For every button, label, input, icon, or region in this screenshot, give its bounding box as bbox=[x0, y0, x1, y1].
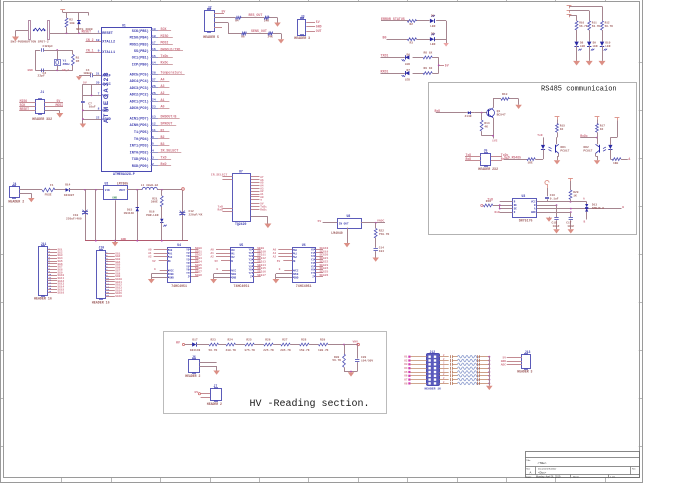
J5 left pin wires bbox=[465, 153, 481, 161]
svg-text:LED: LED bbox=[580, 45, 585, 48]
svg-text:VCC: VCC bbox=[102, 95, 109, 99]
J1 left pin wires with labels bbox=[19, 99, 35, 111]
opto2 coupling arrows bbox=[603, 147, 606, 151]
svg-text:SG16: SG16 bbox=[115, 295, 122, 298]
resistor R2 bbox=[65, 18, 75, 28]
svg-text:MISO(PB4): MISO(PB4) bbox=[130, 36, 149, 41]
svg-text:IR_SELECT: IR_SELECT bbox=[211, 172, 228, 176]
svg-text:B1: B1 bbox=[161, 128, 165, 132]
wire U3 VCC row bbox=[537, 199, 587, 202]
ground (U8) bbox=[344, 243, 351, 247]
connector J6 HEADER 2 bbox=[185, 355, 200, 378]
net label 5V (AVCC) bbox=[83, 81, 87, 85]
svg-text:R3: R3 bbox=[410, 42, 414, 45]
svg-text:15: 15 bbox=[152, 54, 156, 58]
wire C7 to VCC rail bbox=[82, 84, 84, 101]
J1 right pin wires bbox=[44, 99, 63, 113]
svg-text:23: 23 bbox=[152, 104, 156, 108]
svg-text:SCK(PB5): SCK(PB5) bbox=[132, 29, 149, 34]
svg-text:56.7K: 56.7K bbox=[209, 349, 218, 352]
wire crystal bottom bbox=[35, 50, 73, 71]
open pin circle HV out bbox=[353, 339, 360, 345]
svg-text:TxD: TxD bbox=[537, 134, 542, 137]
svg-text:1N4148: 1N4148 bbox=[190, 349, 201, 352]
svg-text:AIN0(PD6): AIN0(PD6) bbox=[130, 123, 149, 128]
svg-text:LED: LED bbox=[605, 45, 610, 48]
svg-text:Sheet: Sheet bbox=[573, 476, 579, 479]
svg-text:J11: J11 bbox=[41, 242, 47, 246]
J3 pin wires with labels bbox=[306, 20, 321, 33]
LED D5 bbox=[430, 33, 436, 46]
svg-text:Monday, April 01, 2019: Monday, April 01, 2019 bbox=[536, 476, 561, 479]
svg-text:4148: 4148 bbox=[465, 115, 472, 118]
svg-text:74HC4051: 74HC4051 bbox=[234, 284, 250, 288]
svg-text:R28: R28 bbox=[301, 339, 306, 342]
resistor R23 56.7K bbox=[209, 339, 219, 352]
wire J2 pin2 row bbox=[214, 18, 277, 23]
wire U8 output bbox=[361, 219, 385, 224]
svg-text:SW1-PUSHBUTTON SPST-2: SW1-PUSHBUTTON SPST-2 bbox=[11, 40, 49, 44]
svg-text:14: 14 bbox=[152, 61, 156, 65]
svg-text:RXD1: RXD1 bbox=[381, 69, 389, 73]
svg-text:GND: GND bbox=[102, 109, 108, 113]
svg-text:R27: R27 bbox=[282, 339, 287, 342]
LED D16 PWR-LED bbox=[146, 207, 166, 241]
wire U3 B row to caps bbox=[537, 204, 558, 217]
svg-text:GND: GND bbox=[316, 24, 322, 28]
wire AREF bbox=[79, 75, 101, 77]
ground (R13) bbox=[515, 105, 522, 109]
svg-text:375.7K: 375.7K bbox=[244, 349, 255, 352]
svg-text:750.7K: 750.7K bbox=[379, 233, 390, 236]
svg-text:RxD: RxD bbox=[495, 211, 500, 214]
svg-text:LED: LED bbox=[430, 43, 435, 46]
svg-text:HEADER 16: HEADER 16 bbox=[92, 300, 110, 304]
ground (led col 3) bbox=[599, 61, 606, 66]
net label TxD (R19 input) bbox=[487, 198, 493, 202]
svg-text:K1: K1 bbox=[404, 356, 408, 359]
LED D4 bbox=[430, 14, 436, 27]
wire base net bbox=[436, 112, 487, 114]
svg-text:K3: K3 bbox=[404, 363, 408, 366]
ribbon common wire to ground bbox=[489, 357, 491, 386]
svg-text:6: 6 bbox=[152, 135, 154, 139]
HV section box bbox=[164, 332, 387, 414]
svg-text:U4: U4 bbox=[177, 243, 181, 247]
capacitor C16 0.1uF bbox=[545, 188, 559, 202]
svg-text:1K: 1K bbox=[600, 128, 604, 131]
net label CN_2 (crystal side) bbox=[62, 69, 69, 72]
wire base resistor branch bbox=[481, 113, 483, 120]
J6 pin wires bbox=[200, 363, 217, 371]
J11 pin wires bbox=[48, 247, 65, 294]
RS485 section box bbox=[429, 83, 637, 235]
ground (row1) bbox=[274, 23, 281, 27]
optocoupler OK2 PC817 transistor side bbox=[583, 144, 599, 153]
svg-text:INT0(PD2): INT0(PD2) bbox=[130, 150, 149, 155]
U7 left pin wires bottom bbox=[218, 204, 233, 211]
wire LED D10 to ground bbox=[602, 46, 604, 61]
svg-text:TxD_RS485: TxD_RS485 bbox=[504, 155, 521, 159]
svg-text:GND: GND bbox=[121, 237, 127, 241]
wire R12 to LED bbox=[602, 30, 604, 42]
opto1 coupling arrows bbox=[549, 147, 552, 151]
svg-text:AGND: AGND bbox=[102, 118, 111, 122]
svg-text:MOSI(PB3): MOSI(PB3) bbox=[130, 42, 149, 47]
svg-text:<Doc>: <Doc> bbox=[538, 470, 547, 474]
wire TXD1 RXD1 join with 5V stub bbox=[438, 57, 449, 73]
svg-text:A2: A2 bbox=[294, 256, 298, 259]
wire to R28 bbox=[290, 344, 299, 346]
power symbol VCC (led col 2) bbox=[567, 10, 572, 13]
diode D14 1N4007 bbox=[64, 183, 75, 197]
net label SENS_OUT row bbox=[251, 29, 267, 33]
svg-text:16: 16 bbox=[152, 47, 156, 51]
diode D17 1N4148 bbox=[190, 339, 201, 353]
svg-text:HEADER 3X2: HEADER 3X2 bbox=[32, 117, 52, 121]
svg-text:DHSOUT/B: DHSOUT/B bbox=[161, 115, 177, 119]
svg-text:K5: K5 bbox=[404, 371, 408, 374]
svg-text:INT1(PD3): INT1(PD3) bbox=[130, 144, 149, 149]
svg-text:CN_1: CN_1 bbox=[86, 48, 94, 52]
svg-text:PC817: PC817 bbox=[583, 148, 592, 152]
svg-text:225.7K: 225.7K bbox=[263, 349, 274, 352]
svg-text:10nF: 10nF bbox=[553, 225, 560, 228]
svg-text:<Title>: <Title> bbox=[538, 461, 547, 465]
svg-text:HEADER 2: HEADER 2 bbox=[207, 402, 222, 406]
svg-text:GND: GND bbox=[232, 277, 237, 280]
ground (AREF) bbox=[76, 76, 82, 80]
svg-text:2: 2 bbox=[152, 162, 154, 166]
capacitor C10 220uF/400 bbox=[66, 190, 88, 241]
svg-text:HV: HV bbox=[195, 390, 199, 394]
svg-text:56.7K: 56.7K bbox=[605, 25, 614, 28]
ground (HV divider) bbox=[348, 372, 355, 376]
svg-text:74HC4051: 74HC4051 bbox=[296, 284, 312, 288]
power symbol VCC (reset pullup) bbox=[60, 10, 65, 13]
capacitor C14 104 bbox=[374, 238, 385, 258]
svg-text:J12: J12 bbox=[430, 350, 436, 354]
svg-text:TXD(PD1): TXD(PD1) bbox=[132, 157, 149, 162]
svg-text:R19: R19 bbox=[486, 200, 491, 203]
ground (U6) bbox=[273, 279, 280, 283]
svg-text:IN OUT: IN OUT bbox=[339, 222, 349, 225]
svg-text:A2: A2 bbox=[161, 91, 165, 95]
svg-text:74HC4051: 74HC4051 bbox=[171, 284, 187, 288]
svg-text:MOSI: MOSI bbox=[56, 103, 64, 107]
svg-text:R4: R4 bbox=[235, 20, 239, 23]
svg-text:A2: A2 bbox=[169, 256, 173, 259]
svg-text:HEADER 3: HEADER 3 bbox=[294, 36, 310, 40]
IC U5 74HC4051 body bbox=[230, 243, 254, 288]
svg-text:AREF: AREF bbox=[102, 74, 111, 78]
svg-text:24K: 24K bbox=[264, 20, 269, 23]
svg-text:B2: B2 bbox=[161, 135, 165, 139]
svg-text:XTALL1: XTALL1 bbox=[102, 51, 115, 55]
wire opto2 emitter to ground bbox=[596, 153, 598, 160]
svg-text:HV: HV bbox=[176, 341, 180, 345]
svg-text:SENS_OUT: SENS_OUT bbox=[251, 29, 267, 33]
IC U4 74HC4051 body bbox=[168, 243, 192, 288]
ribbon left net labels and dots bbox=[404, 356, 410, 386]
J10 pin wires bbox=[106, 251, 123, 298]
U5 left pin wires bbox=[211, 249, 231, 279]
ribbon right wires with resistor network bbox=[439, 354, 490, 385]
U1 right pins with net labels bbox=[130, 27, 185, 169]
svg-text:A: A bbox=[628, 157, 630, 161]
svg-text:R6: R6 bbox=[241, 35, 245, 38]
svg-text:220uF/4X: 220uF/4X bbox=[189, 212, 203, 216]
svg-text:18: 18 bbox=[152, 34, 156, 38]
svg-text:1KE: 1KE bbox=[613, 162, 618, 165]
connector J1 HEADER 3X2 bbox=[32, 90, 52, 121]
svg-text:1M: 1M bbox=[76, 59, 80, 63]
svg-text:U1: U1 bbox=[122, 23, 126, 27]
svg-text:5V: 5V bbox=[277, 260, 281, 263]
svg-text:3: 3 bbox=[152, 155, 154, 159]
svg-text:AVCC: AVCC bbox=[102, 83, 111, 87]
svg-text:205.7K: 205.7K bbox=[280, 349, 291, 352]
wire opto1 emitter to ground bbox=[557, 153, 559, 160]
diode D12 4148 bbox=[465, 111, 475, 118]
svg-text:10uF: 10uF bbox=[89, 105, 96, 108]
svg-text:RES_OUT: RES_OUT bbox=[249, 13, 263, 17]
svg-text:104: 104 bbox=[379, 250, 384, 253]
svg-text:LED: LED bbox=[405, 79, 410, 82]
power ground rail bbox=[85, 240, 188, 242]
net stub CN_1 to XTAL1 bbox=[86, 48, 102, 52]
svg-text:104/50V: 104/50V bbox=[361, 359, 373, 363]
svg-text:ADC3(PC3): ADC3(PC3) bbox=[130, 86, 149, 91]
wire R17 to opto2 collector bbox=[597, 132, 599, 144]
net label B1 (opto1 anode) bbox=[537, 134, 542, 137]
svg-text:SCK: SCK bbox=[161, 27, 167, 31]
net label B (TVS bottom) bbox=[584, 221, 586, 224]
svg-text:MOSI: MOSI bbox=[161, 41, 169, 45]
wire to R25 bbox=[236, 344, 245, 346]
svg-text:22: 22 bbox=[96, 115, 100, 119]
svg-text:DHSOLD/TXD: DHSOLD/TXD bbox=[161, 47, 181, 51]
ground (opto1) bbox=[554, 160, 561, 164]
svg-text:1V2: 1V2 bbox=[492, 138, 498, 142]
svg-text:LED: LED bbox=[430, 25, 435, 28]
ground (U5) bbox=[210, 279, 217, 283]
svg-text:F1: F1 bbox=[50, 184, 54, 187]
svg-text:5: 5 bbox=[152, 142, 154, 146]
ground (opto2) bbox=[594, 160, 601, 164]
svg-text:A4: A4 bbox=[161, 78, 165, 82]
wire R2 D1 to reset wire bbox=[67, 27, 79, 33]
svg-text:9: 9 bbox=[98, 48, 100, 52]
net label GND (crystal) bbox=[28, 69, 33, 72]
resistor R1 1M bbox=[72, 50, 80, 66]
LED D8 bbox=[574, 42, 585, 51]
svg-text:1N4007: 1N4007 bbox=[64, 194, 75, 197]
J5 right pin wires bbox=[491, 153, 509, 161]
crystal Y1 bbox=[55, 59, 70, 66]
resistor R22 750.7K bbox=[374, 223, 389, 238]
capacitor C7 10uF bbox=[81, 101, 96, 108]
ground (C14) bbox=[372, 258, 379, 262]
IC U7 TQ2420 body bbox=[233, 170, 251, 227]
svg-text:OUT: OUT bbox=[316, 29, 322, 33]
wire crystal top bbox=[35, 49, 73, 59]
power symbol VCC (led col 3) bbox=[567, 6, 572, 9]
svg-text:22pF: 22pF bbox=[46, 44, 53, 48]
J13 pin wires bbox=[501, 356, 522, 366]
capacitor C20 104/50V bbox=[355, 345, 373, 372]
wire to R26 bbox=[254, 344, 263, 346]
svg-text:U3: U3 bbox=[522, 194, 526, 198]
junction dot (base) bbox=[481, 112, 483, 114]
svg-text:RxD: RxD bbox=[466, 157, 472, 161]
svg-text:PWR-LED: PWR-LED bbox=[146, 214, 158, 217]
resistor R11 56.7K bbox=[588, 21, 601, 30]
resistor R25 375.7K bbox=[244, 339, 255, 352]
svg-text:5V: 5V bbox=[316, 20, 320, 24]
svg-text:K8: K8 bbox=[404, 382, 408, 385]
svg-text:19: 19 bbox=[152, 27, 156, 31]
svg-text:SS(PB2): SS(PB2) bbox=[134, 49, 149, 54]
svg-text:J1: J1 bbox=[40, 90, 44, 94]
svg-text:XTALL2: XTALL2 bbox=[102, 41, 115, 45]
svg-text:RxD: RxD bbox=[218, 208, 224, 212]
diode D1 1N4007 bbox=[77, 21, 81, 34]
svg-text:BC547: BC547 bbox=[497, 112, 506, 116]
svg-text:RESET: RESET bbox=[20, 107, 30, 111]
resistor R15 1K bbox=[556, 119, 566, 132]
resistor R24 430.7K bbox=[226, 339, 237, 352]
RS485 section title bbox=[541, 86, 617, 94]
svg-text:ADC4(PC4): ADC4(PC4) bbox=[130, 79, 149, 84]
svg-text:R26: R26 bbox=[265, 339, 270, 342]
U3 left pin wires bbox=[495, 202, 513, 214]
svg-text:1N4148: 1N4148 bbox=[124, 212, 135, 215]
net stub CN_2 to XTAL2 bbox=[86, 38, 102, 42]
svg-text:D7: D7 bbox=[407, 69, 411, 72]
svg-text:5V: 5V bbox=[215, 260, 219, 263]
svg-text:220uF/400: 220uF/400 bbox=[66, 217, 82, 221]
wire U3 D row bbox=[537, 211, 572, 217]
svg-text:RxD: RxD bbox=[161, 162, 167, 166]
svg-text:J10: J10 bbox=[99, 246, 105, 250]
ground (pushbutton) bbox=[12, 31, 19, 42]
capacitor C18 10nF bbox=[552, 218, 560, 230]
wire regulator ground bbox=[115, 200, 117, 241]
wire to R23 bbox=[196, 344, 209, 346]
U7 ground pin wire bbox=[251, 217, 268, 224]
svg-text:A: A bbox=[583, 198, 585, 201]
svg-text:CN_2: CN_2 bbox=[86, 38, 94, 42]
svg-text:R9 1K: R9 1K bbox=[424, 67, 433, 70]
svg-text:D6: D6 bbox=[407, 53, 411, 56]
svg-text:TQ2420: TQ2420 bbox=[235, 222, 246, 226]
wire reset net bbox=[16, 31, 102, 34]
resistor R5 (row1 b) bbox=[264, 16, 269, 22]
resistor R21 390E bbox=[151, 190, 163, 207]
svg-text:13: 13 bbox=[152, 115, 156, 119]
U7 right pin wires group1 bbox=[251, 176, 264, 202]
svg-text:IR_SELECT: IR_SELECT bbox=[161, 149, 179, 153]
svg-text:U8: U8 bbox=[347, 214, 351, 218]
power symbol VCC (R20) bbox=[568, 178, 573, 181]
capacitor C4 100nF (AREF) bbox=[83, 68, 92, 77]
wire U8 input bbox=[318, 219, 338, 223]
pushbutton SW1 SPST-2 bbox=[29, 21, 50, 40]
svg-text:HV -Reading section.: HV -Reading section. bbox=[250, 398, 370, 410]
wire emitter to gnd net bbox=[482, 118, 494, 139]
svg-text:C4: C4 bbox=[86, 68, 90, 72]
svg-text:VADC: VADC bbox=[377, 219, 384, 223]
U4 left pin wires bbox=[148, 249, 168, 279]
svg-text:5V: 5V bbox=[152, 260, 156, 263]
svg-text:0.1uF: 0.1uF bbox=[550, 197, 559, 200]
capacitor C12 220uF/4X bbox=[179, 190, 202, 241]
svg-text:Rev: Rev bbox=[632, 468, 636, 470]
svg-text:J7: J7 bbox=[214, 384, 218, 388]
svg-text:28: 28 bbox=[152, 71, 156, 75]
IC U1 ATMEGA328 body bbox=[102, 23, 152, 176]
svg-text:R8 1K: R8 1K bbox=[424, 51, 433, 54]
svg-text:L1 33uH-3A: L1 33uH-3A bbox=[141, 184, 159, 187]
ground (J4) bbox=[28, 198, 35, 202]
resistor R17 1K bbox=[596, 119, 606, 132]
resistor R26 225.7K bbox=[263, 339, 274, 352]
svg-text:1: 1 bbox=[98, 29, 100, 33]
svg-text:A: A bbox=[530, 470, 532, 474]
svg-text:Temperature: Temperature bbox=[161, 71, 183, 75]
svg-text:VIN: VIN bbox=[105, 189, 110, 192]
svg-text:56.7K: 56.7K bbox=[332, 359, 341, 362]
net label B0 row bbox=[383, 35, 387, 39]
svg-text:1K: 1K bbox=[560, 128, 564, 131]
svg-text:24K: 24K bbox=[268, 35, 273, 38]
svg-text:RxDc: RxDc bbox=[260, 208, 267, 211]
svg-text:OC1(PB1): OC1(PB1) bbox=[132, 56, 149, 61]
wire J4 pin2 to ground bbox=[20, 193, 32, 198]
svg-text:RxDc: RxDc bbox=[161, 61, 169, 65]
svg-text:J4: J4 bbox=[13, 182, 17, 186]
ground (led col 2) bbox=[586, 61, 593, 66]
svg-text:ADC1(PC1): ADC1(PC1) bbox=[130, 100, 149, 105]
label NOTE 4007 bbox=[76, 27, 93, 31]
wire J4 pin1 to fuse bbox=[20, 189, 43, 191]
wire LED rows join bbox=[446, 21, 448, 43]
svg-text:R23: R23 bbox=[211, 339, 216, 342]
svg-text:SEG8: SEG8 bbox=[195, 274, 202, 277]
svg-text:20: 20 bbox=[96, 80, 100, 84]
svg-text:MISO: MISO bbox=[161, 34, 169, 38]
svg-text:HEADER 3: HEADER 3 bbox=[517, 370, 532, 374]
net label ERROR_STATUS bbox=[381, 17, 405, 21]
U7 right pin wires group2 bbox=[251, 203, 267, 212]
svg-text:FUSE: FUSE bbox=[45, 194, 52, 197]
ground (led col 1) bbox=[573, 61, 580, 66]
svg-text:SN75176: SN75176 bbox=[519, 218, 533, 222]
svg-text:56.7K: 56.7K bbox=[579, 25, 588, 28]
resistor R9 1K bbox=[423, 67, 432, 75]
svg-text:5V: 5V bbox=[318, 219, 322, 223]
transistor Q1 BC547 bbox=[487, 108, 506, 118]
ribbon left wires bbox=[410, 357, 426, 384]
wire row ERROR_STATUS bbox=[381, 20, 446, 22]
wire collector to R13 bbox=[493, 99, 519, 108]
svg-text:ADC5(PC5): ADC5(PC5) bbox=[130, 72, 149, 77]
ground (C17) bbox=[568, 229, 575, 233]
svg-text:HEADER 5: HEADER 5 bbox=[203, 35, 219, 39]
wire row RXD1 bbox=[381, 73, 439, 75]
svg-text:10k: 10k bbox=[69, 21, 75, 25]
